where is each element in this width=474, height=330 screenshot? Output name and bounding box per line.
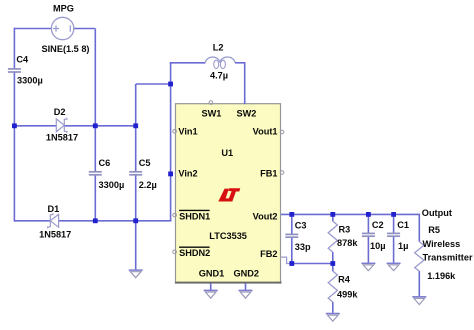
svg-text:MPG: MPG	[53, 4, 74, 14]
wire	[64, 125, 135, 127]
ground (GND1)	[204, 290, 218, 298]
svg-text:3300µ: 3300µ	[17, 76, 43, 86]
svg-text:33p: 33p	[295, 242, 311, 252]
svg-text:2.2µ: 2.2µ	[139, 180, 157, 190]
wire	[291, 214, 293, 234]
junction	[330, 212, 335, 217]
svg-text:SINE(1.5 8): SINE(1.5 8)	[42, 44, 90, 54]
wire	[292, 263, 333, 265]
ground (C5 column)	[129, 270, 143, 278]
wire GND1 lead	[210, 284, 212, 291]
wire	[418, 271, 420, 296]
svg-text:1N5817: 1N5817	[46, 132, 78, 142]
svg-text:D2: D2	[54, 107, 66, 117]
svg-text:Vin1: Vin1	[178, 126, 197, 136]
wire	[13, 28, 15, 68]
wire	[244, 62, 246, 104]
svg-text:10µ: 10µ	[370, 241, 386, 251]
svg-text:4.7µ: 4.7µ	[210, 70, 228, 80]
pin SHDN1 unconnected circle	[173, 213, 177, 217]
wire	[14, 125, 56, 127]
junction	[330, 261, 335, 266]
wire	[332, 252, 334, 263]
svg-text:L2: L2	[213, 42, 224, 52]
capacitor C6	[89, 172, 102, 175]
wire	[135, 84, 137, 171]
resistor R4	[328, 271, 337, 302]
svg-text:GND1: GND1	[199, 268, 225, 278]
junction	[133, 123, 138, 128]
ground (C1)	[387, 263, 401, 270]
svg-text:C3: C3	[295, 221, 307, 231]
resistor R5	[415, 242, 424, 272]
junction	[391, 212, 396, 217]
junction	[289, 261, 294, 266]
wire	[14, 220, 50, 222]
svg-text:1µ: 1µ	[398, 241, 408, 251]
wire	[170, 62, 206, 64]
svg-text:D1: D1	[48, 204, 60, 214]
junction	[168, 82, 173, 87]
capacitor C4	[8, 69, 21, 72]
svg-text:R4: R4	[338, 274, 351, 284]
svg-text:1.196k: 1.196k	[427, 271, 456, 281]
svg-text:SW1: SW1	[202, 109, 222, 119]
svg-text:878k: 878k	[337, 238, 358, 248]
svg-text:C5: C5	[139, 158, 151, 168]
wire	[74, 28, 96, 30]
ground (GND2)	[239, 290, 253, 298]
pin label SHDN1 with overline	[179, 210, 210, 221]
svg-text:Vin2: Vin2	[178, 169, 197, 179]
svg-text:SW2: SW2	[237, 109, 257, 119]
svg-text:FB2: FB2	[260, 249, 277, 259]
wire	[94, 175, 96, 221]
diode D1	[48, 213, 59, 228]
svg-text:499k: 499k	[337, 289, 358, 299]
svg-text:R3: R3	[339, 225, 351, 235]
wire	[332, 214, 334, 221]
voltage source MPG	[51, 17, 73, 39]
svg-text:3300µ: 3300µ	[99, 180, 125, 190]
pin SHDN2 unconnected circle	[173, 250, 177, 254]
wire	[291, 237, 293, 264]
capacitor C5	[129, 172, 142, 175]
svg-text:1N5817: 1N5817	[39, 230, 71, 240]
wire	[332, 302, 334, 313]
ground (R5)	[412, 297, 426, 305]
svg-text:R5: R5	[428, 225, 440, 235]
inductor L2	[205, 57, 235, 69]
junction	[289, 212, 294, 217]
pin FB1 unconnected circle	[280, 171, 284, 175]
wire	[235, 62, 245, 64]
svg-text:U1: U1	[221, 148, 233, 158]
wire	[393, 214, 395, 233]
pin Vout1 unconnected circle	[280, 130, 284, 134]
wire GND2 lead	[245, 284, 247, 291]
ground (C2)	[361, 263, 375, 270]
svg-text:GND2: GND2	[234, 268, 260, 278]
junction	[168, 172, 173, 177]
svg-text:C2: C2	[372, 220, 384, 230]
svg-text:SHDN1: SHDN1	[179, 211, 210, 221]
junction	[93, 218, 98, 223]
ground (R4)	[326, 314, 340, 322]
wire FB2 pin stub	[281, 257, 292, 263]
wire	[170, 63, 172, 221]
wire	[418, 214, 420, 242]
pin label SHDN2 with overline	[179, 247, 210, 258]
svg-text:C6: C6	[99, 158, 111, 168]
wire	[367, 214, 369, 233]
pin SW1 unconnected circle	[209, 101, 213, 105]
wire	[332, 264, 334, 272]
resistor R3	[328, 221, 337, 252]
svg-text:Vout2: Vout2	[253, 211, 278, 221]
svg-text:C1: C1	[397, 220, 409, 230]
svg-text:Wireless: Wireless	[423, 239, 461, 249]
svg-text:Vout1: Vout1	[253, 126, 278, 136]
diode D2	[56, 118, 67, 133]
junction	[366, 212, 371, 217]
svg-text:Output: Output	[422, 208, 452, 218]
junction	[93, 123, 98, 128]
wire	[13, 72, 15, 221]
svg-text:SHDN2: SHDN2	[179, 248, 210, 258]
wire	[136, 83, 171, 85]
svg-text:Transmitter: Transmitter	[423, 253, 473, 263]
svg-text:C4: C4	[16, 55, 29, 65]
wire	[94, 126, 96, 172]
wire	[135, 175, 137, 270]
wire	[59, 220, 172, 222]
pin Vin1 unconnected circle	[173, 130, 177, 134]
wire	[281, 213, 419, 215]
wire	[94, 29, 96, 126]
svg-text:FB1: FB1	[260, 169, 277, 179]
wire	[14, 28, 51, 30]
capacitor C3	[285, 234, 298, 237]
junction	[12, 123, 17, 128]
op-amp U1 LTC3535 body	[175, 104, 282, 283]
capacitor C1	[387, 233, 400, 236]
wire	[367, 236, 369, 263]
svg-text:LTC3535: LTC3535	[209, 231, 247, 241]
logo LT (Linear Technology)	[218, 188, 240, 201]
junction	[133, 218, 138, 223]
capacitor C2	[362, 233, 375, 236]
wire	[393, 236, 395, 263]
